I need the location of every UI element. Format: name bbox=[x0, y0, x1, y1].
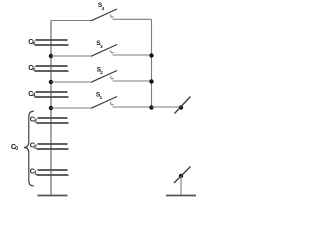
switch pivot (output) bbox=[175, 97, 191, 114]
node dot bus S3 bbox=[149, 53, 153, 57]
svg-text:6: 6 bbox=[32, 41, 35, 47]
capacitor C1 bbox=[37, 170, 69, 175]
svg-text:5: 5 bbox=[32, 67, 35, 73]
ground (chain bottom) bbox=[38, 195, 68, 197]
ground (bottom right) bbox=[166, 195, 196, 197]
wire: bus to output switch bbox=[152, 106, 180, 108]
switch S1 bbox=[91, 97, 152, 109]
svg-text:3: 3 bbox=[34, 119, 37, 125]
svg-text:3: 3 bbox=[100, 44, 103, 50]
wire: node to switch S2 bbox=[51, 81, 91, 83]
svg-text:4: 4 bbox=[32, 93, 35, 99]
wire: node to switch S3 bbox=[51, 55, 91, 57]
node dot C4/C3 bbox=[49, 106, 53, 110]
node dot C6/C5 bbox=[49, 54, 53, 58]
svg-text:1: 1 bbox=[34, 171, 37, 177]
wire: left vertical chain line bbox=[50, 21, 52, 196]
node dot bus S1 bbox=[149, 105, 153, 109]
svg-text:0: 0 bbox=[15, 146, 18, 152]
svg-text:4: 4 bbox=[102, 6, 105, 12]
wire: top node wire to switch S4 bbox=[51, 20, 91, 22]
brace grouping C0 bbox=[24, 111, 34, 186]
capacitor C2 bbox=[37, 144, 69, 149]
switch S2 bbox=[91, 71, 152, 83]
capacitor C6 bbox=[35, 40, 69, 45]
svg-text:1: 1 bbox=[100, 95, 103, 101]
node dot C5/C4 bbox=[49, 80, 53, 84]
node dot bus S2 bbox=[149, 79, 153, 83]
svg-text:2: 2 bbox=[34, 145, 37, 151]
svg-text:2: 2 bbox=[100, 70, 103, 76]
capacitor C4 bbox=[35, 92, 69, 97]
switch S3 bbox=[91, 45, 152, 57]
switch S4 bbox=[91, 9, 152, 21]
switch to ground (bottom right) bbox=[174, 167, 191, 196]
wire: right bus vertical bbox=[151, 20, 153, 108]
capacitor C3 bbox=[37, 118, 69, 123]
wire: node to switch S1 bbox=[51, 107, 91, 109]
capacitor C5 bbox=[35, 66, 69, 71]
